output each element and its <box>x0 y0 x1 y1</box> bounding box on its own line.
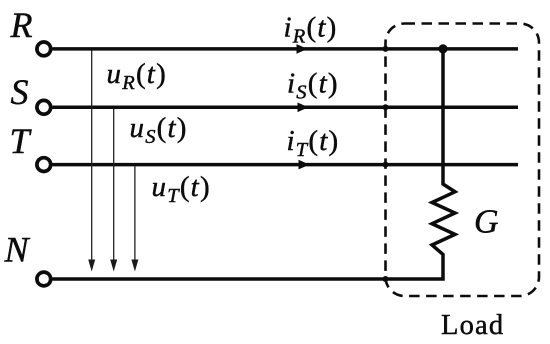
svg-text:G: G <box>474 204 499 241</box>
svg-text:N: N <box>4 230 31 270</box>
svg-text:iS(t): iS(t) <box>287 68 339 104</box>
svg-text:T: T <box>10 121 33 161</box>
svg-text:uT(t): uT(t) <box>152 171 211 207</box>
svg-text:uR(t): uR(t) <box>107 58 167 94</box>
svg-text:S: S <box>11 72 29 112</box>
svg-text:uS(t): uS(t) <box>130 112 188 148</box>
svg-text:iT(t): iT(t) <box>287 125 340 161</box>
svg-text:Load: Load <box>441 310 504 341</box>
svg-text:iR(t): iR(t) <box>284 12 338 48</box>
svg-text:R: R <box>10 5 33 45</box>
